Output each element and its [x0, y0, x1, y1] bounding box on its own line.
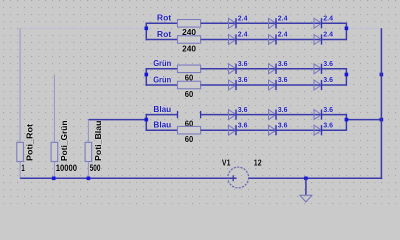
svg-text:3.6: 3.6 [323, 59, 333, 68]
svg-text:Grün: Grün [153, 75, 171, 84]
svg-text:V1: V1 [222, 159, 231, 168]
svg-text:500: 500 [90, 162, 101, 173]
svg-text:2.4: 2.4 [323, 30, 333, 39]
svg-text:3.6: 3.6 [278, 105, 288, 114]
svg-text:Rot: Rot [157, 30, 172, 39]
svg-text:Poti_Grün: Poti_Grün [60, 121, 69, 162]
svg-text:3.6: 3.6 [238, 59, 248, 68]
svg-text:3.6: 3.6 [278, 120, 288, 129]
svg-text:Blau: Blau [153, 121, 171, 130]
svg-text:2.4: 2.4 [278, 30, 288, 39]
svg-text:3.6: 3.6 [238, 105, 248, 114]
svg-text:2.4: 2.4 [278, 14, 288, 23]
svg-text:3.6: 3.6 [323, 105, 333, 114]
svg-text:3.6: 3.6 [278, 75, 288, 84]
svg-text:240: 240 [182, 44, 196, 53]
svg-text:3.6: 3.6 [238, 75, 248, 84]
svg-text:Poti_Blau: Poti_Blau [94, 121, 103, 162]
svg-text:60: 60 [185, 135, 194, 144]
svg-text:3.6: 3.6 [323, 75, 333, 84]
svg-text:3.6: 3.6 [278, 59, 288, 68]
svg-text:2.4: 2.4 [238, 14, 248, 23]
svg-text:12: 12 [254, 159, 262, 168]
svg-text:Rot: Rot [157, 14, 172, 23]
svg-text:3.6: 3.6 [238, 120, 248, 129]
svg-text:1: 1 [21, 162, 24, 173]
svg-text:2.4: 2.4 [323, 14, 333, 23]
svg-text:10000: 10000 [56, 162, 77, 173]
svg-text:Grün: Grün [153, 59, 171, 68]
svg-text:3.6: 3.6 [323, 120, 333, 129]
svg-text:Blau: Blau [153, 105, 171, 114]
svg-text:Poti_Rot: Poti_Rot [26, 124, 35, 161]
svg-text:60: 60 [185, 90, 194, 99]
svg-text:2.4: 2.4 [238, 30, 248, 39]
